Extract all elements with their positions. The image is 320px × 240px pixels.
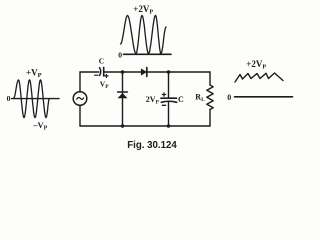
node input sine wave — [14, 80, 50, 118]
capacitor C2 top plate — [161, 97, 177, 99]
svg-text:C: C — [99, 57, 104, 66]
svg-text:0: 0 — [227, 93, 231, 102]
wire bottom — [80, 125, 210, 127]
diode D1 triangle — [118, 93, 128, 98]
AC source V1 — [73, 92, 87, 106]
diode D2 (series, pointing right) triangle — [141, 68, 147, 75]
wire shunt diode branch — [122, 72, 124, 126]
capacitor C1 plus sign — [105, 74, 108, 77]
capacitor C1 minus sign — [95, 74, 98, 76]
wire (right output DC level line) — [235, 96, 293, 98]
capacitor C2 plus sign — [162, 93, 165, 96]
wire (top waveform baseline) — [124, 53, 172, 55]
wire left branch (source leads) — [79, 72, 81, 126]
wire right branch above resistor — [209, 72, 211, 85]
capacitor C1 (series, curved left plate) — [100, 68, 101, 76]
svg-text:0: 0 — [7, 94, 11, 103]
svg-text:0: 0 — [118, 50, 122, 59]
node output ripple wave — [235, 73, 283, 82]
node top clamped output wave — [121, 16, 167, 54]
svg-text:C: C — [178, 95, 184, 104]
node junction dot top of diode D1 — [121, 70, 125, 74]
node junction dot top of capacitor C2 — [167, 70, 171, 74]
wire output capacitor branch lower — [168, 103, 170, 127]
wire top: diode D2 to top-right corner — [147, 71, 211, 73]
diode D2 cathode bar — [146, 68, 148, 77]
capacitor C2 minus sign — [162, 104, 165, 106]
resistor RL zigzag — [207, 85, 213, 110]
wire right branch below resistor — [209, 110, 211, 127]
node junction dot bottom of diode D1 — [121, 124, 125, 128]
wire top: capacitor C1 to diode D2 — [104, 71, 141, 73]
node junction dot bottom of capacitor C2 — [167, 124, 171, 128]
wire output capacitor branch upper — [168, 72, 170, 98]
wire (input waveform axis) — [12, 98, 60, 100]
capacitor C2 bottom curved plate — [161, 101, 176, 102]
svg-text:Fig. 30.124: Fig. 30.124 — [127, 140, 177, 151]
wire top: source to capacitor C1 — [80, 71, 99, 73]
diode D1 (shunt, pointing up) cathode bar — [118, 91, 128, 93]
